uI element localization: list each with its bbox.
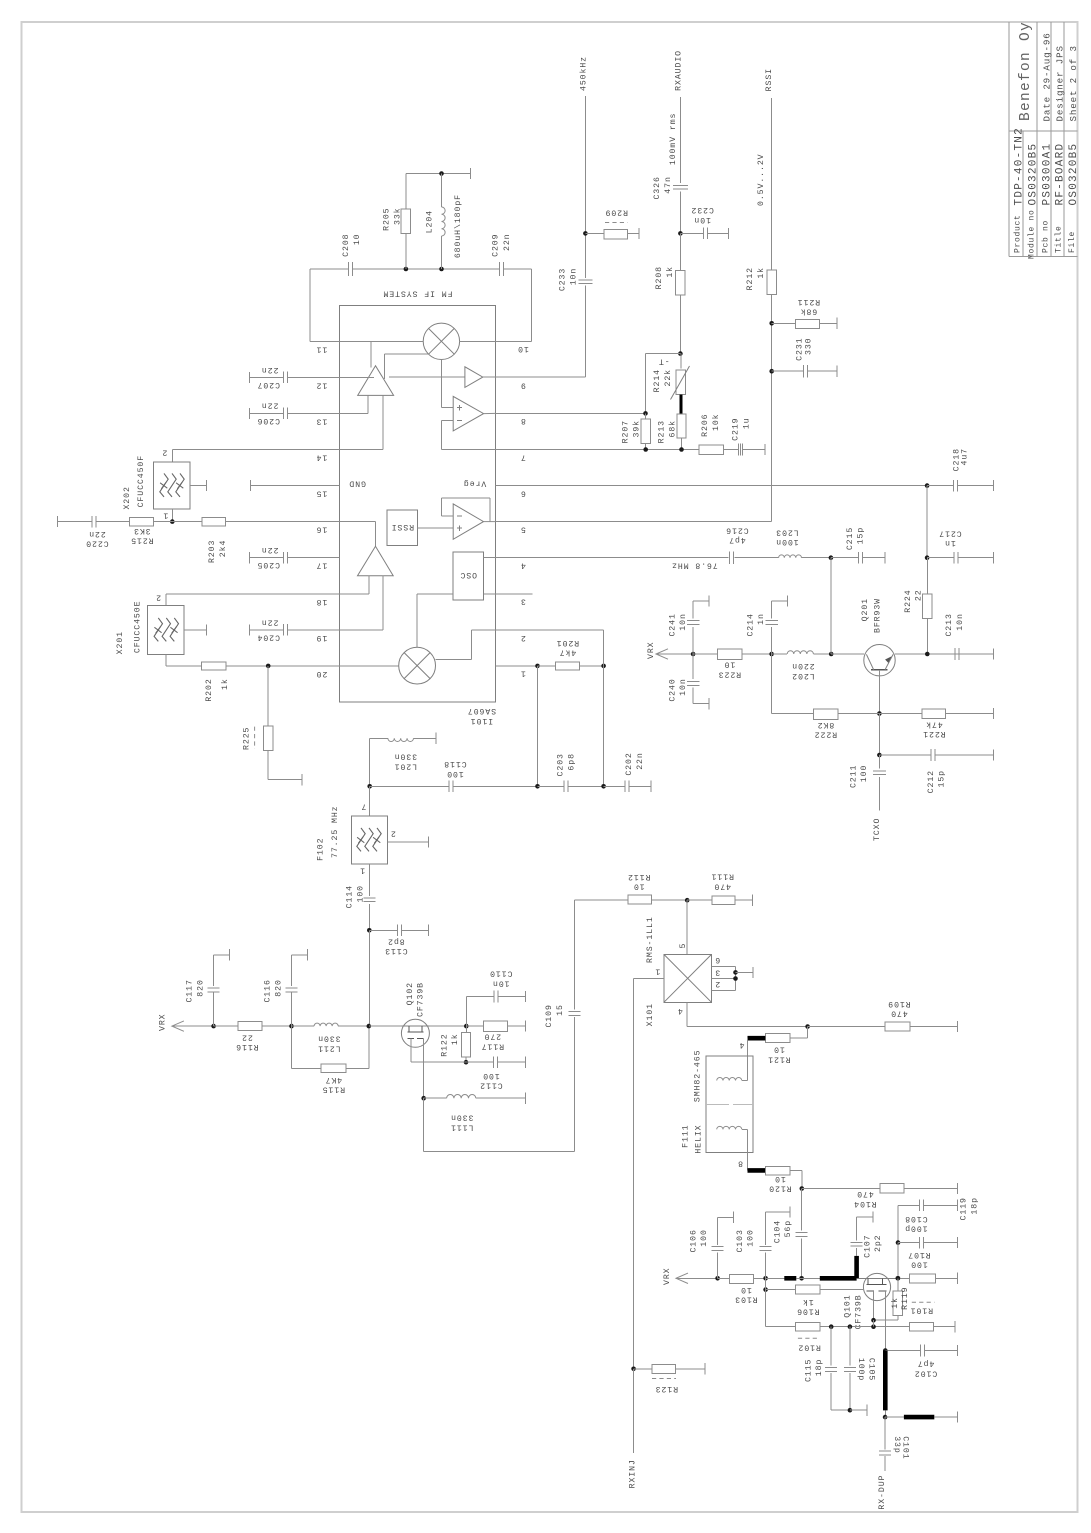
svg-text:C112: C112 xyxy=(479,1081,502,1090)
svg-text:6: 6 xyxy=(520,488,526,497)
svg-text:TCXO: TCXO xyxy=(873,818,882,841)
label I101 SA607 xyxy=(467,706,496,725)
transistor Q102 CF739B xyxy=(401,1019,429,1047)
wire down to R102 row xyxy=(765,1278,767,1326)
svg-text:Q102: Q102 xyxy=(406,982,415,1005)
svg-text:1k: 1k xyxy=(890,1297,900,1309)
svg-text:56p: 56p xyxy=(784,1220,793,1238)
svg-text:Title: Title xyxy=(1055,225,1064,253)
transistor Q201 BFR93W xyxy=(864,645,895,676)
svg-text:R106: R106 xyxy=(796,1307,819,1316)
wire Q201 base down xyxy=(878,670,880,714)
svg-text:22n: 22n xyxy=(261,365,279,374)
svg-text:C118: C118 xyxy=(443,759,466,768)
resistor R116 22 xyxy=(214,1025,238,1027)
svg-text:RX-DUP: RX-DUP xyxy=(878,1475,887,1510)
op-amp U1a (quad det) xyxy=(453,396,483,431)
capacitor C109 15 xyxy=(568,1011,580,1013)
svg-text:R120: R120 xyxy=(768,1184,791,1193)
resistor R106 1k xyxy=(763,1287,768,1292)
wire R201 left down xyxy=(537,666,539,786)
node L111 xyxy=(421,1096,426,1101)
capacitor C214 1n xyxy=(771,627,773,654)
svg-text:TDP-40-TN2: TDP-40-TN2 xyxy=(1014,127,1026,206)
node C211/C212 xyxy=(877,753,882,758)
svg-text:OS0320B5: OS0320B5 xyxy=(1068,143,1080,206)
resistor R212 1k xyxy=(767,270,776,294)
wire pin12 row inside xyxy=(339,376,374,378)
svg-text:5: 5 xyxy=(520,525,526,534)
svg-text:CFUCC450E: CFUCC450E xyxy=(133,601,142,654)
wire X202 pin1 to pin16 net xyxy=(171,509,173,522)
svg-text:R208: R208 xyxy=(655,266,664,289)
svg-text:R224: R224 xyxy=(904,589,913,612)
node C241 xyxy=(691,652,696,657)
svg-text:1u: 1u xyxy=(742,418,751,430)
svg-text:2: 2 xyxy=(162,448,168,457)
svg-text:L202: L202 xyxy=(791,671,814,680)
svg-text:20: 20 xyxy=(316,669,328,678)
svg-text:C108: C108 xyxy=(904,1214,927,1223)
svg-text:7: 7 xyxy=(520,452,526,461)
wire Q102 drain right xyxy=(429,1025,466,1027)
svg-text:BFR93W: BFR93W xyxy=(873,598,882,633)
title block frame xyxy=(1008,22,1010,256)
svg-text:C208: C208 xyxy=(342,234,351,257)
svg-text:R121: R121 xyxy=(767,1054,790,1063)
wire Q101 lead1 xyxy=(873,1291,875,1320)
svg-text:VRX: VRX xyxy=(663,1268,672,1286)
svg-text:C103: C103 xyxy=(736,1229,745,1252)
capacitor C115 18p xyxy=(830,1327,832,1366)
svg-text:10n: 10n xyxy=(569,268,578,286)
label Vreg xyxy=(463,478,486,487)
node C113 xyxy=(367,928,372,933)
svg-text:2k4: 2k4 xyxy=(218,540,228,558)
svg-text:2: 2 xyxy=(520,633,526,642)
capacitor C102 4p7 xyxy=(885,1350,920,1352)
resistor R213 68k xyxy=(677,414,686,438)
svg-text:5: 5 xyxy=(679,943,688,949)
X101 pins 6 3 2 xyxy=(712,965,736,967)
net RXINJ xyxy=(633,1369,635,1453)
svg-text:4k7: 4k7 xyxy=(559,648,577,658)
svg-text:R107: R107 xyxy=(907,1250,930,1259)
wire to Q102 xyxy=(369,1025,402,1027)
svg-text:C119: C119 xyxy=(960,1197,969,1220)
thick wire segments Q101 gate xyxy=(766,1277,785,1279)
svg-text:13: 13 xyxy=(316,416,328,425)
svg-text:File: File xyxy=(1068,231,1077,253)
resistor R107 100 xyxy=(898,1277,909,1279)
inductor L111 330n xyxy=(424,1097,447,1099)
pin numbers left 11-20 xyxy=(316,344,328,353)
svg-text:4u7: 4u7 xyxy=(961,448,970,466)
wire OSC to mixer M2 xyxy=(417,593,453,595)
svg-text:3: 3 xyxy=(520,597,526,606)
svg-text:RXINJ: RXINJ xyxy=(628,1459,637,1488)
svg-text:OS0320B5: OS0320B5 xyxy=(1028,143,1040,206)
svg-text:C211: C211 xyxy=(849,765,858,788)
svg-text:8: 8 xyxy=(520,416,526,425)
label 1 (X202 pin1) xyxy=(163,511,169,520)
svg-text:3K3: 3K3 xyxy=(133,526,151,535)
wire Q201 collector right xyxy=(895,653,994,655)
capacitor C217 1n xyxy=(927,557,954,559)
capacitor C209 xyxy=(499,262,501,276)
capacitor C202 22n xyxy=(624,781,626,793)
svg-text:Q201: Q201 xyxy=(861,598,870,621)
svg-text:22n: 22n xyxy=(261,545,279,554)
svg-text:19: 19 xyxy=(316,633,328,642)
svg-text:C206: C206 xyxy=(257,416,280,425)
capacitor C204 22n xyxy=(249,624,251,635)
svg-text:C209: C209 xyxy=(492,234,501,257)
wire X101 pin5 xyxy=(686,900,688,954)
wire pin16 net xyxy=(58,521,93,523)
wire X201 output stub xyxy=(184,629,206,631)
svg-text:4: 4 xyxy=(677,1006,683,1015)
wire Q101 lead2 xyxy=(884,1291,886,1351)
resistor R120 10 xyxy=(765,1166,790,1175)
svg-text:C220: C220 xyxy=(85,539,108,548)
capacitor C203 6p8 xyxy=(563,781,565,793)
svg-text:1: 1 xyxy=(654,967,660,976)
svg-text:X201: X201 xyxy=(116,631,125,654)
svg-text:14: 14 xyxy=(316,453,328,462)
capacitor C119 18p xyxy=(898,1204,920,1206)
resistor R103 10 xyxy=(718,1277,730,1279)
svg-text:C326: C326 xyxy=(653,176,662,199)
svg-text:C212: C212 xyxy=(927,770,936,793)
svg-text:Vreg: Vreg xyxy=(463,478,486,487)
resistor R104 470 xyxy=(802,1188,880,1190)
capacitor C107 2p2 xyxy=(854,1256,859,1278)
svg-text:6p8: 6p8 xyxy=(567,753,576,771)
capacitor C326 xyxy=(673,184,688,186)
svg-text:8: 8 xyxy=(737,1159,743,1168)
svg-text:Pcb no: Pcb no xyxy=(1041,220,1050,253)
svg-text:C105: C105 xyxy=(867,1358,876,1381)
capacitor C205 22n xyxy=(249,552,251,563)
node L203/C215 xyxy=(829,555,834,560)
svg-text:PS0300A1: PS0300A1 xyxy=(1041,143,1053,206)
capacitor C241 10n xyxy=(692,627,694,654)
svg-text:1k: 1k xyxy=(756,267,766,279)
svg-text:SMH82-465: SMH82-465 xyxy=(694,1050,703,1103)
svg-text:100: 100 xyxy=(446,769,464,778)
label 2 xyxy=(162,448,168,457)
wire R102 row xyxy=(820,1326,910,1328)
svg-text:1k: 1k xyxy=(665,266,675,278)
svg-text:10: 10 xyxy=(353,234,362,246)
node C108 xyxy=(896,1240,901,1245)
node R103/C103 xyxy=(763,1276,768,1281)
svg-text:330: 330 xyxy=(804,338,813,356)
wire OSC pin4 xyxy=(484,557,496,559)
svg-text:R214: R214 xyxy=(653,369,662,392)
svg-text:2: 2 xyxy=(155,592,161,601)
svg-text:R201: R201 xyxy=(556,638,579,647)
wire X101 pin1 to RXINJ xyxy=(634,978,664,980)
svg-text:18p: 18p xyxy=(815,1359,824,1377)
svg-text:22: 22 xyxy=(241,1032,253,1041)
svg-text:R223: R223 xyxy=(718,669,741,678)
wire X202 output stub xyxy=(190,485,207,487)
capacitor C114 100 xyxy=(363,897,375,899)
svg-text:RXAUDIO: RXAUDIO xyxy=(674,50,683,91)
svg-text:1: 1 xyxy=(163,511,169,520)
resistor R225 (unfitted) xyxy=(267,666,269,726)
svg-text:C233: C233 xyxy=(558,268,567,291)
capacitor C218 4u7 xyxy=(927,485,954,487)
svg-text:100: 100 xyxy=(747,1229,756,1247)
svg-text:I101: I101 xyxy=(470,716,493,725)
svg-text:C113: C113 xyxy=(384,946,407,955)
resistor R211 68k xyxy=(772,322,796,324)
svg-text:100: 100 xyxy=(860,765,869,783)
wire pin7 external xyxy=(495,449,699,451)
svg-text:Designer JPS: Designer JPS xyxy=(1055,45,1066,121)
svg-text:22n: 22n xyxy=(88,529,106,538)
svg-text:R206: R206 xyxy=(701,414,710,437)
svg-text:R103: R103 xyxy=(734,1295,757,1304)
svg-text:10n: 10n xyxy=(693,215,711,224)
wire Q102 source xyxy=(410,1038,412,1062)
capacitor C231 330 xyxy=(772,370,804,372)
svg-text:L201: L201 xyxy=(394,761,417,770)
svg-text:Product: Product xyxy=(1014,214,1023,253)
svg-text:C110: C110 xyxy=(489,969,512,978)
svg-text:9: 9 xyxy=(520,380,526,389)
wire to R207 xyxy=(646,353,681,355)
svg-text:R116: R116 xyxy=(235,1042,258,1051)
svg-text:22n: 22n xyxy=(261,617,279,626)
svg-text:16: 16 xyxy=(316,525,328,534)
svg-text:X101: X101 xyxy=(646,1003,655,1026)
wire R202 to IC pin20 xyxy=(226,665,339,667)
svg-text:8p2: 8p2 xyxy=(387,936,405,945)
svg-text:R207: R207 xyxy=(621,420,630,443)
pin numbers right 10-1 xyxy=(517,344,529,353)
svg-text:15: 15 xyxy=(316,489,328,498)
svg-text:R123: R123 xyxy=(655,1384,678,1393)
node R117/C110 xyxy=(464,1024,469,1029)
terminator tick xyxy=(470,168,472,179)
wire X201 pin2 to IC pin18 xyxy=(166,593,339,595)
svg-text:15: 15 xyxy=(556,1004,565,1016)
svg-text:10: 10 xyxy=(724,660,736,669)
svg-text:C240: C240 xyxy=(668,678,677,701)
wire pin9 out xyxy=(483,376,496,378)
svg-text:4: 4 xyxy=(739,1040,745,1049)
resistor R223 10 xyxy=(693,653,717,655)
svg-text:GND: GND xyxy=(348,479,366,488)
svg-text:R119: R119 xyxy=(901,1287,910,1310)
thick wire RX-DUP branch xyxy=(883,1351,888,1411)
svg-text:15p: 15p xyxy=(938,770,947,788)
svg-text:2: 2 xyxy=(390,828,396,837)
svg-text:C106: C106 xyxy=(689,1229,698,1252)
svg-text:1k: 1k xyxy=(802,1297,814,1307)
svg-text:12: 12 xyxy=(316,380,328,389)
capacitor C106 100 xyxy=(717,1252,719,1278)
capacitor C108 100p xyxy=(898,1242,920,1244)
svg-text:2p2: 2p2 xyxy=(874,1235,883,1253)
svg-text:10: 10 xyxy=(517,344,529,353)
svg-text:100: 100 xyxy=(482,1071,500,1080)
svg-text:R101: R101 xyxy=(910,1306,933,1315)
RSSI block xyxy=(387,510,417,546)
node C214/L202 xyxy=(769,652,774,657)
resistor R109 470 xyxy=(808,1026,886,1028)
svg-text:Module no: Module no xyxy=(1028,209,1037,259)
svg-text:450kHz: 450kHz xyxy=(578,56,588,91)
resistor R115 4K7 branch xyxy=(291,1026,293,1068)
svg-text:CF739B: CF739B xyxy=(855,1294,864,1329)
svg-text:C203: C203 xyxy=(557,753,566,776)
svg-text:RF-BOARD: RF-BOARD xyxy=(1055,143,1067,206)
svg-text:1n: 1n xyxy=(757,613,766,625)
svg-text:C207: C207 xyxy=(257,380,280,389)
terminator C213 xyxy=(993,648,995,659)
capacitor C112 100 xyxy=(466,1061,494,1063)
node Q201 base net xyxy=(829,652,834,657)
resistor R101 (unfitted) xyxy=(909,1322,933,1331)
svg-text:10n: 10n xyxy=(492,978,510,987)
capacitor C232 xyxy=(680,232,703,234)
svg-text:HELIX: HELIX xyxy=(694,1125,703,1154)
wire U1a inv input to pin7 xyxy=(442,420,454,422)
wire pin5 external to RSSI xyxy=(495,521,771,523)
node C231 xyxy=(769,369,774,374)
amp A3 xyxy=(358,546,394,575)
svg-text:1k: 1k xyxy=(220,678,230,690)
svg-text:R225: R225 xyxy=(242,727,251,750)
svg-text:22k: 22k xyxy=(663,369,673,387)
svg-text:C114: C114 xyxy=(346,885,355,908)
resistor R221 47k xyxy=(879,713,921,715)
svg-text:RSSI: RSSI xyxy=(765,68,774,91)
capacitor C104 56p xyxy=(801,1189,803,1231)
svg-text:17: 17 xyxy=(316,561,328,570)
resistor R207 39k xyxy=(645,413,647,419)
svg-text:C216: C216 xyxy=(725,525,748,534)
svg-text:R203: R203 xyxy=(208,540,217,563)
thick stub right xyxy=(885,1416,904,1418)
node R111/X101 xyxy=(685,898,690,903)
svg-text:C214: C214 xyxy=(746,613,755,636)
svg-text:C101: C101 xyxy=(900,1436,909,1459)
wire pin3 stub xyxy=(495,593,532,595)
svg-text:R209: R209 xyxy=(605,207,628,216)
svg-text:OSC: OSC xyxy=(460,570,478,579)
svg-text:Sheet 2 of 3: Sheet 2 of 3 xyxy=(1068,45,1079,121)
svg-text:7: 7 xyxy=(360,802,366,811)
wire pin8 external xyxy=(495,412,645,414)
svg-text:F102: F102 xyxy=(317,838,326,861)
label GND xyxy=(348,479,366,488)
wire pin16 row inside xyxy=(339,521,375,523)
svg-text:C117: C117 xyxy=(186,979,195,1002)
svg-text:X202: X202 xyxy=(123,486,132,509)
svg-text:C231: C231 xyxy=(795,338,804,361)
inductor L211 330n xyxy=(292,1025,315,1027)
capacitor C213 10n xyxy=(954,648,956,660)
svg-text:Benefon Oy: Benefon Oy xyxy=(1018,21,1034,121)
capacitor C215 15p xyxy=(831,557,858,559)
svg-text:SA607: SA607 xyxy=(467,706,496,715)
wire top net y=269 xyxy=(310,268,348,270)
resistor R102 (unfitted) xyxy=(796,1322,820,1331)
svg-text:C107: C107 xyxy=(863,1235,872,1258)
svg-text:L203: L203 xyxy=(775,527,798,536)
svg-text:100n: 100n xyxy=(775,537,798,546)
inductor L203 xyxy=(735,557,779,559)
node base bias xyxy=(877,711,882,716)
label FM IF SYSTEM xyxy=(383,289,453,298)
svg-text:RMS-1LL1: RMS-1LL1 xyxy=(646,916,655,963)
wire F102 pin2 stub xyxy=(387,841,428,843)
svg-text:10: 10 xyxy=(774,1174,786,1183)
IC I101 SA607 FM IF SYSTEM body xyxy=(339,306,495,703)
wire L201 down xyxy=(369,738,371,786)
capacitor C211 100 xyxy=(878,755,880,769)
svg-text:C219: C219 xyxy=(731,418,740,441)
svg-text:22n: 22n xyxy=(503,234,512,252)
resistor R215 xyxy=(130,517,154,525)
svg-text:L111: L111 xyxy=(450,1122,473,1131)
svg-text:R109: R109 xyxy=(887,999,910,1008)
svg-text:1: 1 xyxy=(520,669,526,678)
node R123 xyxy=(631,1367,636,1372)
resistor R214 22k thermistor xyxy=(680,354,682,369)
svg-text:100: 100 xyxy=(910,1260,928,1269)
svg-text:C115: C115 xyxy=(804,1359,813,1382)
wire pin11 external xyxy=(310,340,339,342)
svg-text:F111: F111 xyxy=(681,1125,690,1148)
wire X201 pin1 to pin20 xyxy=(165,654,167,666)
capacitor C118 100 xyxy=(448,781,450,793)
svg-text:R222: R222 xyxy=(814,730,837,739)
wire C109 vertical xyxy=(573,900,575,1010)
resistor R222 8K2 xyxy=(771,654,773,714)
svg-text:CF739B: CF739B xyxy=(417,982,426,1017)
svg-text:330n: 330n xyxy=(394,752,417,761)
svg-text:R115: R115 xyxy=(322,1085,345,1094)
svg-text:L204: L204 xyxy=(425,210,434,233)
capacitor C105 100p xyxy=(849,1327,851,1366)
svg-text:10n: 10n xyxy=(956,613,965,631)
thick wire F111 pin4 xyxy=(748,1036,766,1041)
wire F102 pin1 xyxy=(368,864,370,896)
svg-text:22: 22 xyxy=(915,589,924,601)
capacitor C212 15p xyxy=(879,754,931,756)
node L201/F102 xyxy=(367,784,372,789)
node Q101 drain xyxy=(896,1276,901,1281)
wire pin13 to A1 base xyxy=(339,412,368,414)
node R104 row xyxy=(800,1186,805,1191)
wire Q102 gate2 down xyxy=(423,1038,425,1098)
svg-text:R117: R117 xyxy=(481,1041,504,1050)
svg-text:C241: C241 xyxy=(668,613,677,636)
wire gate2 bias loop xyxy=(423,1098,425,1151)
svg-text:270: 270 xyxy=(484,1032,502,1041)
svg-text:10: 10 xyxy=(740,1285,752,1294)
wire pin14 to A1 base xyxy=(339,449,383,451)
node R205/L204 top xyxy=(404,267,409,272)
resistor R119 1k xyxy=(896,1276,901,1281)
